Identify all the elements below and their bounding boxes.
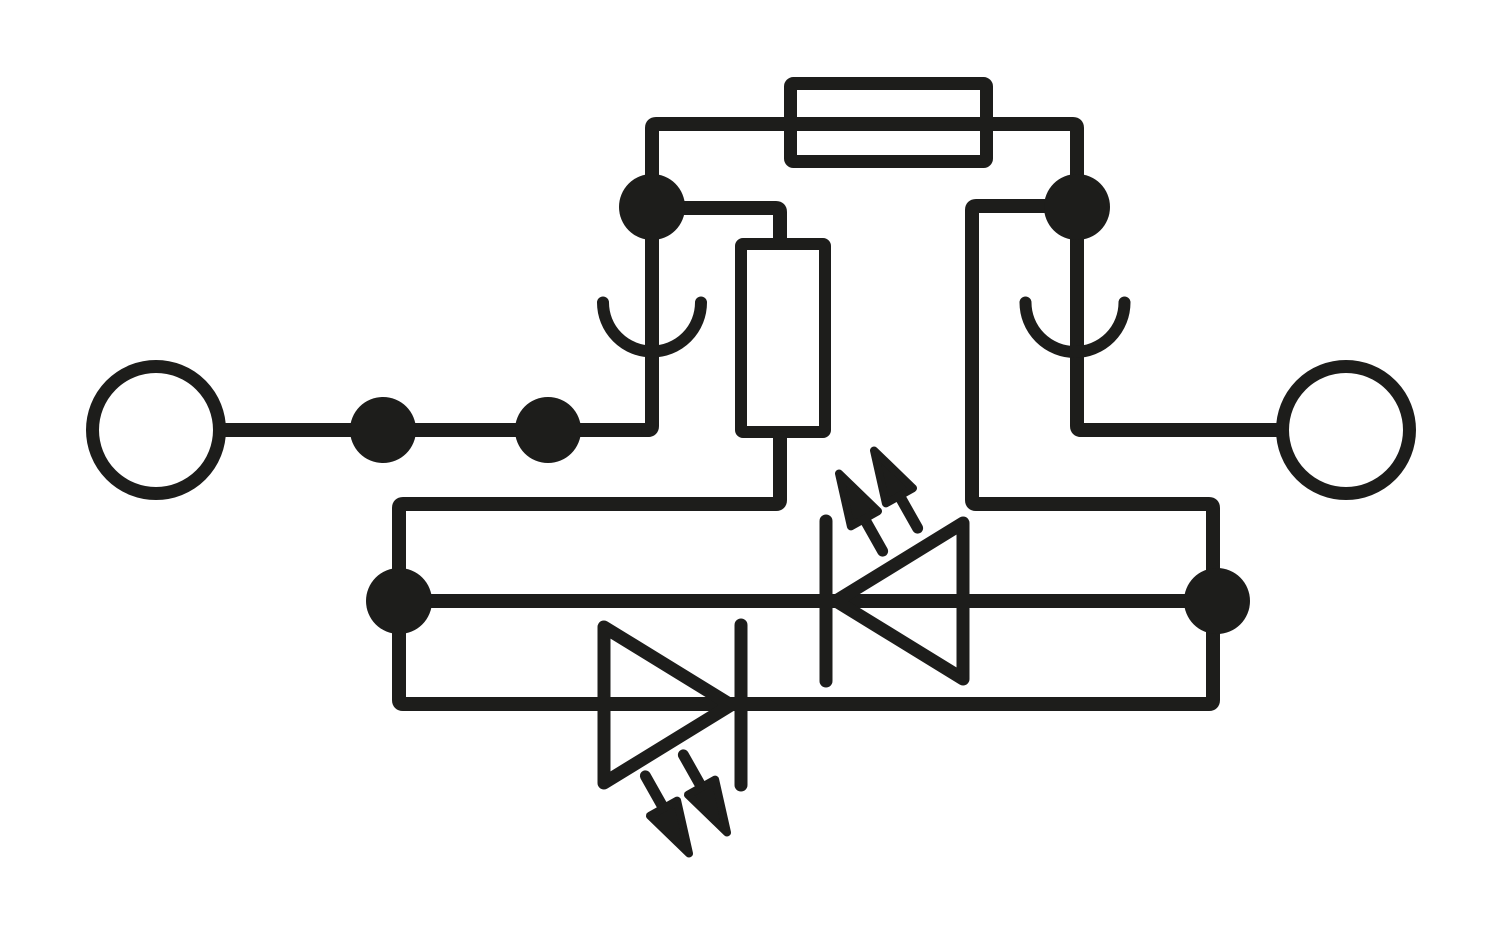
LED D1 triangle (points left) [836,523,963,679]
node dot on main wire 1 [350,397,416,463]
node dot top left [619,174,685,240]
wire from left node to resistor top [652,208,780,238]
wire riser left up, top run, riser right down [648,124,1081,430]
LED D1 cathode bar [820,521,833,681]
LED D2 light arrow b [645,776,689,854]
node dot on main wire 2 [515,397,581,463]
node dot top right [1044,174,1110,240]
fuse F1 body [791,84,987,162]
LED D2 cathode bar [735,625,748,785]
wire main left horizontal [222,423,648,437]
terminal circle left [93,367,220,494]
clamp contact left (hook arc) [603,303,701,352]
LED D2 light arrow a [683,755,727,833]
wire resistor bottom lead + indicator box outline + inner riser to right node [399,206,1213,704]
wire right horizontal to terminal [1081,423,1277,437]
wire middle of indicator box [399,594,1215,608]
LED D1 light arrow b [874,451,918,529]
terminal circle right [1283,367,1410,494]
LED D1 light arrow a [839,474,883,552]
resistor R1 body [741,244,825,432]
clamp contact right (hook arc) [1026,303,1125,353]
node dot box right [1184,568,1250,634]
node dot box left [366,568,432,634]
LED D2 triangle (points right) [604,627,731,783]
